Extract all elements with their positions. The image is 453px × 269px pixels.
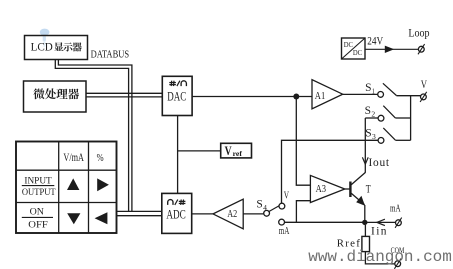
keypad arrow up — [67, 178, 79, 190]
wire: ADC to A2 — [192, 213, 213, 215]
switch S4 — [256, 197, 284, 225]
svg-text:2: 2 — [371, 110, 375, 119]
svg-text:Iout: Iout — [369, 157, 390, 169]
svg-text:mA: mA — [279, 225, 290, 237]
wire: junction to A3 upper input — [296, 97, 310, 186]
bus: keypad to ADC — [117, 210, 162, 212]
keypad arrow down — [67, 213, 80, 224]
wire: switch output bus — [410, 96, 412, 141]
node: emitter junction — [362, 220, 367, 225]
keypad arrow left — [95, 212, 108, 224]
LCD display box — [25, 36, 88, 60]
switch S2 — [365, 103, 396, 121]
svg-text:OUTPUT: OUTPUT — [22, 188, 56, 198]
svg-text:V/mA: V/mA — [63, 150, 84, 164]
svg-text:V: V — [421, 77, 428, 91]
switch S1 — [365, 80, 396, 98]
wire: S1 to V terminal — [396, 95, 420, 97]
svg-text:LCD: LCD — [31, 39, 54, 53]
svg-text:T: T — [366, 181, 371, 195]
svg-text:ADC: ADC — [166, 207, 185, 221]
svg-text:24V: 24V — [367, 33, 383, 47]
wire: DAC to ADC reference line — [177, 116, 179, 194]
op-amp A1 — [312, 80, 343, 109]
wire: Rref to COM — [365, 252, 394, 264]
wire: Vref tap — [178, 150, 221, 152]
wire: S3 to S4 V contact — [282, 140, 379, 203]
svg-text:OFF: OFF — [28, 221, 48, 231]
bus: LCD display to trunk — [55, 60, 128, 212]
wire: Iout line to collector — [364, 118, 366, 173]
svg-text:www.diangon.com: www.diangon.com — [308, 248, 452, 266]
resistor Rref — [337, 225, 370, 252]
node: junction dot — [293, 94, 299, 100]
terminal COM — [391, 246, 405, 269]
wire: DAC output to A1 — [192, 96, 312, 98]
wire: A2 to S4 — [243, 213, 264, 215]
ADC converter — [162, 193, 192, 233]
svg-text:ON: ON — [30, 208, 45, 218]
svg-text:ref: ref — [233, 150, 243, 158]
transistor T — [345, 173, 371, 206]
pushpin highlight mark — [40, 29, 50, 47]
svg-text:mA: mA — [390, 202, 401, 214]
svg-text:Iin: Iin — [371, 226, 387, 238]
svg-text:3: 3 — [372, 132, 376, 141]
Vref reference box — [221, 143, 252, 158]
svg-text:DAC: DAC — [167, 89, 186, 103]
svg-text:INPUT: INPUT — [24, 176, 52, 186]
bus: microprocessor to DAC — [86, 92, 162, 94]
DAC converter — [162, 76, 192, 115]
svg-text:Loop: Loop — [408, 26, 429, 40]
terminal mA — [390, 202, 402, 228]
DC/DC converter — [342, 38, 366, 59]
wire: S2 to bus — [395, 117, 410, 119]
svg-text:DATABUS: DATABUS — [91, 50, 130, 61]
svg-text:DC: DC — [353, 48, 362, 57]
wire: S2 to Iout line — [365, 117, 378, 119]
amplifier A2 — [213, 199, 243, 229]
svg-text:A2: A2 — [227, 208, 237, 220]
switch S3 — [365, 125, 395, 143]
wire: DC/DC to Loop — [365, 48, 418, 50]
wire: S3 to bus — [395, 139, 410, 141]
svg-text:V: V — [284, 189, 289, 201]
svg-text:S: S — [256, 197, 262, 211]
wire: node to S4 mA contact — [285, 221, 365, 223]
op-amp A3 — [310, 175, 344, 202]
svg-text:S: S — [365, 80, 371, 94]
svg-text:DC: DC — [344, 40, 353, 49]
wire: node to mA terminal, Iin arrow — [365, 221, 396, 223]
terminal Loop — [408, 26, 429, 55]
wire: emitter to node — [364, 205, 366, 222]
keypad panel — [16, 142, 117, 234]
svg-text:1: 1 — [372, 86, 375, 95]
wire: A3 lower input — [296, 201, 310, 223]
svg-text:S: S — [365, 125, 371, 139]
terminal V — [420, 77, 427, 102]
keypad arrow right — [97, 178, 109, 191]
wire: A1 output to S1 — [343, 93, 378, 95]
svg-text:A1: A1 — [315, 90, 325, 102]
arrow Iout — [362, 157, 368, 164]
svg-text:A3: A3 — [316, 183, 327, 195]
svg-text:V: V — [225, 143, 232, 158]
microprocessor box — [24, 81, 87, 112]
svg-text:%: % — [97, 152, 104, 164]
svg-text:S: S — [365, 103, 371, 117]
